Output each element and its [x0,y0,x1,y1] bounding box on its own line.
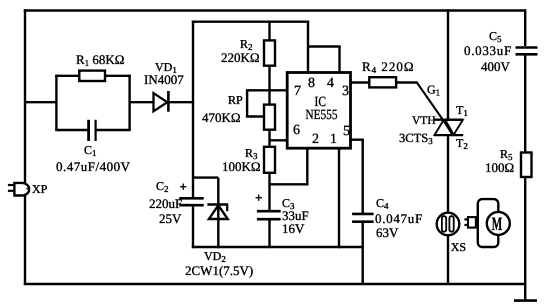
svg-text:0.47uF/400V: 0.47uF/400V [56,159,131,174]
wire inner top horizontal [192,21,309,23]
svg-text:5: 5 [343,124,350,139]
wire R1C1 block left vertical [55,75,57,130]
capacitor C2 [179,198,203,205]
wire RP to R3 [268,130,270,147]
svg-text:NE555: NE555 [306,108,338,123]
wire R1C1 block top [55,75,131,77]
svg-text:C1: C1 [84,143,97,158]
wire socket to bottom vertical [447,235,449,285]
wire bottom border [24,283,527,285]
svg-text:T1: T1 [456,103,468,118]
wire triac top vertical [447,9,449,120]
wire pin5 stub [351,138,364,140]
wire pin6 horizontal [270,139,288,141]
wire pin7 horizontal [246,89,287,91]
wire RP wiper link [247,90,264,116]
wire inner bottom horizontal [192,246,364,248]
triac VTH [434,120,463,135]
wire right border lower [524,177,526,301]
wire inner left vertical [192,21,194,199]
svg-text:6: 6 [293,123,300,138]
svg-text:220KΩ: 220KΩ [221,50,260,65]
wire top border [24,9,526,11]
wire pin2 vertical [306,148,308,185]
svg-text:0.047uF: 0.047uF [375,211,423,226]
svg-text:G1: G1 [427,83,440,98]
capacitor C3 [257,211,281,219]
IC U1 NE555 timer box [287,73,350,149]
wire right border upper [524,9,526,46]
wire mains left horizontal [25,101,57,103]
svg-text:+: + [180,179,187,194]
diode VD1 [154,91,169,112]
svg-text:+: + [255,190,262,205]
wire pin3 stub [351,81,370,83]
svg-text:M: M [492,214,503,235]
svg-text:3CTS3: 3CTS3 [399,131,433,146]
wire triac to socket vertical [447,135,449,214]
zener diode VD2 [207,205,228,220]
wire gate diagonal [416,82,453,134]
capacitor C5 [516,48,538,55]
wire pin1 vertical [338,148,340,248]
svg-text:C5: C5 [489,29,502,44]
wire inner left vertical below C2 [192,205,194,248]
svg-text:VTH: VTH [412,115,436,127]
svg-text:220uF: 220uF [149,196,182,211]
wire C3 bottom lead [268,219,270,248]
svg-text:100KΩ: 100KΩ [222,159,261,174]
wire pin8 vertical [307,22,309,73]
motor M [487,212,510,235]
svg-text:R1 68KΩ: R1 68KΩ [76,52,124,68]
svg-text:XS: XS [451,240,466,254]
svg-text:R4 220Ω: R4 220Ω [362,59,415,75]
capacitor C1 [89,120,96,141]
svg-text:470KΩ: 470KΩ [202,110,241,125]
socket XS [437,213,460,236]
svg-text:1: 1 [330,132,337,147]
svg-text:100Ω: 100Ω [485,160,514,175]
wire R1C1 block bottom left [55,129,88,131]
svg-text:RP: RP [228,93,243,107]
svg-text:63V: 63V [376,225,399,240]
svg-text:4: 4 [327,76,334,91]
svg-text:VD2: VD2 [204,249,226,264]
wire motor loop [478,199,499,247]
wire C4 branch vertical upper [362,140,364,214]
svg-text:0.033uF: 0.033uF [464,43,512,58]
wire R4 right lead [396,81,417,83]
svg-text:7: 7 [294,84,301,99]
svg-text:16V: 16V [282,221,305,236]
svg-text:XP: XP [32,182,48,196]
svg-text:2CW1(7.5V): 2CW1(7.5V) [185,263,253,278]
wire R3 to C3 [268,173,270,211]
svg-text:T2: T2 [456,136,468,151]
wire pin4 step horizontal [308,45,341,47]
resistor R1 [79,71,105,81]
svg-text:8: 8 [308,76,315,91]
plug XP [8,183,30,196]
wire R1C1 block right vertical [128,75,130,130]
resistor R5 [521,153,532,178]
wire diode anode lead [130,101,154,103]
resistor R4 [369,77,396,87]
wire left border [24,9,26,285]
svg-text:25V: 25V [159,211,182,226]
svg-text:400V: 400V [481,59,511,74]
capacitor C4 [352,214,374,222]
wire zener lead vertical [217,178,219,249]
wire R2 column top [268,22,270,41]
wire zener tee horizontal [193,176,218,178]
svg-text:IN4007: IN4007 [144,72,184,87]
svg-text:C2: C2 [156,179,169,194]
wire R1C1 block bottom right [96,129,131,131]
svg-text:2: 2 [312,132,319,147]
potentiometer RP [264,105,275,130]
wire diode cathode lead [168,101,194,103]
resistor R3 [264,147,275,173]
svg-text:3: 3 [342,84,349,99]
wire R2 to RP [268,66,270,105]
terminal bar bottom right [514,299,537,302]
svg-text:C4: C4 [376,196,389,211]
node labels and component value text [32,29,514,278]
wire right border middle [524,56,526,153]
wire pin2 horizontal [270,183,308,185]
wire pin4 vertical [338,47,340,73]
plug of motor [464,217,476,228]
wire C4 branch vertical lower [362,222,364,285]
resistor R2 [264,40,275,65]
